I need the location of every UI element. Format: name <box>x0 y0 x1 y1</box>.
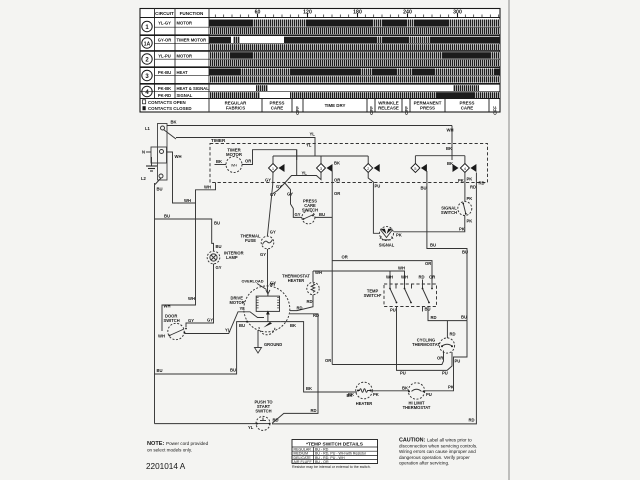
svg-text:RD: RD <box>469 418 475 423</box>
svg-text:PU: PU <box>442 371 448 376</box>
svg-text:MOTOR: MOTOR <box>230 300 245 305</box>
svg-text:BK: BK <box>446 146 452 151</box>
circuit number circles <box>142 21 152 96</box>
svg-text:disconnection when servicing c: disconnection when servicing controls. <box>399 443 477 448</box>
svg-text:RD: RD <box>311 408 317 413</box>
svg-text:WH: WH <box>188 296 195 301</box>
drive motor M2 <box>230 286 290 332</box>
timer motor M1 <box>226 148 243 173</box>
svg-text:RD: RD <box>450 332 456 337</box>
svg-text:BU: BU <box>462 250 468 255</box>
svg-text:YL: YL <box>310 132 316 137</box>
svg-text:OVERLOAD: OVERLOAD <box>242 279 264 284</box>
svg-text:on select models only.: on select models only. <box>147 448 192 453</box>
circuit group divider lines <box>140 35 500 84</box>
svg-text:L1: L1 <box>145 126 151 131</box>
wire WH timer motor feed from terminal N <box>167 152 196 203</box>
svg-text:BK: BK <box>402 386 408 391</box>
svg-text:YL: YL <box>240 306 246 311</box>
svg-text:CONTACTS CLOSED: CONTACTS CLOSED <box>148 106 192 111</box>
push to start switch S5 <box>254 400 273 431</box>
temp switch details table <box>292 440 378 469</box>
wire BK top run to right side <box>167 125 452 127</box>
svg-text:BK: BK <box>348 392 354 397</box>
interior lamp DS1 <box>207 251 243 264</box>
svg-text:WH: WH <box>386 275 393 280</box>
ground <box>146 157 157 171</box>
temp switch S4 (dashed box) <box>364 284 437 307</box>
wire GY lamp to door switch <box>186 264 214 327</box>
svg-text:Label all wires prior to: Label all wires prior to <box>427 438 472 443</box>
svg-text:GY: GY <box>276 184 282 189</box>
wire BU motor bottom feed <box>247 321 280 323</box>
terminal L1 <box>161 126 165 130</box>
svg-text:SWITCH*: SWITCH* <box>364 293 382 298</box>
svg-text:PU: PU <box>390 308 396 313</box>
svg-text:RD: RD <box>419 275 425 280</box>
svg-text:YL: YL <box>225 328 231 333</box>
svg-text:RD: RD <box>307 299 313 304</box>
svg-text:NOTE:: NOTE: <box>147 441 165 447</box>
wire OR bottom run to cycling thermostat <box>332 351 443 365</box>
sub-row separator lines <box>140 27 500 92</box>
wire BU left long run <box>154 183 156 424</box>
svg-text:MOTOR: MOTOR <box>177 20 193 25</box>
svg-text:BU: BU <box>239 323 245 328</box>
svg-text:YL: YL <box>302 170 308 175</box>
svg-text:PK: PK <box>467 219 473 224</box>
wire GY contact 1 to thermal fuse <box>267 173 273 237</box>
wire OR cam 3 arrow drop to center <box>331 171 333 365</box>
legend cycle cells <box>262 99 489 113</box>
door switch S1 <box>158 314 187 340</box>
chart column lines <box>154 9 156 99</box>
timer cam contact 4 (diamond with two arrows) <box>453 164 477 173</box>
svg-text:PU: PU <box>375 184 381 189</box>
svg-text:RD: RD <box>479 181 485 186</box>
motor centrifugal switch <box>259 315 275 335</box>
time scale numbers <box>255 10 462 16</box>
svg-text:RD: RD <box>313 313 319 318</box>
svg-text:RD: RD <box>470 185 476 190</box>
svg-text:BU: BU <box>319 212 325 217</box>
wire BU timer cam 5 drop <box>427 171 467 321</box>
svg-text:BU: BU <box>157 368 163 373</box>
circuit wire-color labels <box>158 20 172 97</box>
svg-text:PK: PK <box>467 177 473 182</box>
svg-text:BU: BU <box>461 315 467 320</box>
svg-text:BK: BK <box>216 159 222 164</box>
svg-text:WH: WH <box>175 154 182 159</box>
timer chart row 1A bars (GY-OR TIMER MOTOR) <box>209 37 500 50</box>
svg-text:2201014 A: 2201014 A <box>146 462 186 471</box>
wire PU cam2 drop to signal <box>368 173 379 234</box>
svg-text:L2: L2 <box>141 176 147 181</box>
svg-text:N: N <box>142 150 145 155</box>
wire YL door switch to drive motor <box>185 312 245 334</box>
function labels <box>177 20 210 97</box>
wire OR temp switch to center drop <box>332 261 432 281</box>
svg-text:OR: OR <box>245 159 251 164</box>
wire WH to temp switch <box>313 271 405 284</box>
svg-text:GY: GY <box>265 178 271 183</box>
svg-text:OR: OR <box>342 255 348 260</box>
svg-text:HEATER: HEATER <box>356 401 373 406</box>
svg-text:PRESS: PRESS <box>420 105 435 110</box>
wire BK motor to heater <box>280 322 357 392</box>
svg-text:PU: PU <box>426 392 432 397</box>
svg-text:WH: WH <box>231 163 238 167</box>
heater E1 <box>348 382 379 406</box>
svg-text:GY: GY <box>270 192 276 197</box>
svg-text:GY: GY <box>207 318 213 323</box>
svg-text:WH: WH <box>204 184 211 189</box>
svg-text:dangerous operation. Verify pr: dangerous operation. Verify proper <box>399 455 470 460</box>
wire YL motor internal <box>245 312 265 318</box>
svg-text:OR: OR <box>425 261 431 266</box>
press care switch S2 <box>302 199 318 224</box>
svg-text:Power cord provided: Power cord provided <box>166 441 209 446</box>
svg-text:PK: PK <box>459 227 465 232</box>
svg-text:THERMOSTAT: THERMOSTAT <box>403 405 431 410</box>
svg-text:OFF: OFF <box>295 106 300 115</box>
svg-text:Wiring errors can cause improp: Wiring errors can cause improper and <box>399 449 476 454</box>
svg-text:BK: BK <box>290 323 296 328</box>
svg-text:GY: GY <box>260 252 266 257</box>
wire PK hi-limit up right <box>424 321 468 391</box>
svg-text:SWITCH: SWITCH <box>302 208 318 213</box>
wire RD motor to push-to-start <box>272 314 318 424</box>
wire PK cam4 to signal switch <box>464 173 466 202</box>
svg-text:GY: GY <box>270 281 276 286</box>
svg-text:BU: BU <box>230 368 236 373</box>
svg-text:Resistor may be internal or ex: Resistor may be internal or external to … <box>292 465 371 469</box>
svg-text:PU: PU <box>400 371 406 376</box>
cycling thermostat S7 <box>412 338 455 361</box>
CAUTION text <box>399 438 477 466</box>
wire WH timer exit down <box>162 183 216 332</box>
wire RD cross run to cycling thermostat <box>428 307 467 321</box>
svg-text:BK: BK <box>447 161 453 166</box>
terminal L2 <box>159 174 163 178</box>
svg-text:CARE: CARE <box>461 105 474 110</box>
svg-text:WH: WH <box>401 275 408 280</box>
L1 switch blade <box>164 130 177 140</box>
svg-text:CONTACTS OPEN: CONTACTS OPEN <box>148 100 186 105</box>
signal switch S3 <box>441 202 472 216</box>
svg-text:OR: OR <box>437 356 443 361</box>
svg-text:GY: GY <box>287 192 293 197</box>
timer cam contact 2 (diamond) <box>364 164 380 173</box>
wire BK cam feed junction <box>451 156 453 160</box>
svg-text:WH: WH <box>164 304 171 309</box>
svg-text:OR: OR <box>325 358 331 363</box>
svg-text:BU: BU <box>164 214 170 219</box>
svg-text:TIME DRY: TIME DRY <box>325 103 346 108</box>
svg-text:1A: 1A <box>144 41 151 47</box>
wire BU press care to center drop <box>315 216 332 218</box>
signal buzzer LS1 <box>379 227 402 248</box>
timer chart row 1 bars (YL-GY MOTOR) <box>209 20 500 35</box>
wire BU temp switch bottom stub <box>422 307 424 312</box>
wire WH thermostat heater top <box>312 271 314 282</box>
svg-text:SWITCH: SWITCH <box>164 318 180 323</box>
svg-text:SIGNAL: SIGNAL <box>379 243 395 248</box>
svg-text:BU: BU <box>216 244 222 249</box>
svg-text:YL: YL <box>248 425 254 430</box>
timer box (dashed) <box>210 144 488 183</box>
wire BK timer motor left <box>215 164 227 166</box>
wire RD thermostat heater bottom <box>290 295 313 311</box>
svg-text:OR: OR <box>334 178 340 183</box>
timer chart row 4 bars (PK-BK / PK-RD) <box>209 85 500 98</box>
wire PK heater to hi-limit <box>371 390 410 392</box>
timer chart row 2 bars (YL-PU MOTOR) <box>209 52 500 66</box>
svg-text:HEAT & SIGNAL: HEAT & SIGNAL <box>177 86 210 91</box>
wire YL from L1 blade to timer contact 1 feed <box>176 138 315 157</box>
svg-text:PK-RD: PK-RD <box>158 93 171 98</box>
wire BU branch to interior lamp <box>155 219 214 252</box>
svg-text:MOTOR: MOTOR <box>226 152 243 157</box>
wire OR timer motor branch <box>296 150 298 176</box>
svg-text:RD: RD <box>297 306 303 311</box>
svg-text:YL-PU: YL-PU <box>158 54 171 59</box>
timer cam contact 1 (diamond) <box>269 164 285 173</box>
svg-text:SWITCH: SWITCH <box>255 409 271 414</box>
wire BK right drop <box>451 126 453 156</box>
svg-text:PU: PU <box>455 359 461 364</box>
timer chart row 3 bars (PK-BU HEAT) <box>209 69 500 83</box>
svg-text:MOTOR: MOTOR <box>177 54 193 59</box>
timer cam contact 5 (diamond) <box>411 164 427 173</box>
wire GY to press care switch <box>285 183 302 217</box>
svg-text:PK: PK <box>396 233 402 238</box>
svg-text:AIR FLUFF: AIR FLUFF <box>294 460 313 464</box>
svg-text:RD: RD <box>273 418 279 423</box>
svg-text:PK: PK <box>458 178 464 183</box>
svg-text:FUNCTION: FUNCTION <box>180 11 204 16</box>
svg-text:THERMOSTAT: THERMOSTAT <box>412 342 440 347</box>
svg-text:HEAT: HEAT <box>177 70 189 75</box>
contacts legend <box>143 100 192 111</box>
svg-text:TIMER: TIMER <box>211 138 226 143</box>
svg-text:CARE: CARE <box>271 105 284 110</box>
thermal fuse F1 <box>240 234 273 249</box>
wire BU branch to drive motor <box>155 322 248 374</box>
svg-text:PK: PK <box>373 392 379 397</box>
svg-text:GY: GY <box>216 265 222 270</box>
svg-text:FUSE: FUSE <box>245 238 256 243</box>
svg-text:WH: WH <box>398 266 405 271</box>
svg-text:RELEASE: RELEASE <box>378 105 399 110</box>
svg-text:BK: BK <box>171 120 177 125</box>
svg-text:BU: BU <box>214 221 220 226</box>
svg-text:operation after servicing.: operation after servicing. <box>399 461 449 466</box>
svg-text:OFF: OFF <box>369 106 374 115</box>
svg-text:RD: RD <box>431 315 437 320</box>
wire PK signal switch to signal <box>394 216 465 232</box>
thermostat heater R1 <box>282 274 319 295</box>
svg-text:CIRCUIT: CIRCUIT <box>155 11 174 16</box>
timer cam contact bus 2 <box>415 155 465 157</box>
temp switch contact stubs <box>386 275 435 304</box>
wire OR timer motor right <box>242 150 297 165</box>
svg-text:YL-GY: YL-GY <box>158 20 171 25</box>
svg-text:LAMP: LAMP <box>226 255 238 260</box>
timer chart outer border <box>140 9 500 113</box>
svg-text:BU: BU <box>430 243 436 248</box>
terminal N <box>160 150 164 154</box>
svg-text:PK-BK: PK-BK <box>158 86 171 91</box>
timer cam contact 3 (diamond) <box>317 164 333 173</box>
chart header row line <box>140 17 500 19</box>
wire YL bottom run to push to start <box>155 423 257 425</box>
svg-text:PK: PK <box>467 196 473 201</box>
svg-text:FABRICS: FABRICS <box>226 105 245 110</box>
timer cam contact bus 1 <box>273 155 368 157</box>
svg-text:GY: GY <box>188 318 194 323</box>
svg-text:WH: WH <box>158 334 165 339</box>
svg-text:WH: WH <box>184 198 191 203</box>
svg-text:GY: GY <box>295 212 301 217</box>
svg-text:GROUND: GROUND <box>264 342 282 347</box>
svg-text:BU: BU <box>157 187 163 192</box>
svg-text:GY: GY <box>270 230 276 235</box>
NOTE text <box>147 441 209 453</box>
svg-text:BU - OR: BU - OR <box>315 460 329 464</box>
svg-text:BU: BU <box>421 186 427 191</box>
wire BU L2 blade to left run <box>155 178 161 185</box>
svg-text:BK: BK <box>334 161 340 166</box>
wire RD cam4 right drop <box>272 173 476 424</box>
svg-text:SWITCH: SWITCH <box>441 210 457 215</box>
svg-text:OFF: OFF <box>493 106 498 115</box>
hi limit thermostat S6 <box>402 383 432 410</box>
wire GY thermal fuse to drive motor <box>267 249 269 293</box>
wire PU temp switch bottom <box>397 307 453 371</box>
svg-text:BK: BK <box>306 386 312 391</box>
svg-text:OR: OR <box>334 191 340 196</box>
svg-text:TIMER MOTOR: TIMER MOTOR <box>177 38 207 43</box>
power cord terminal block <box>151 124 167 181</box>
svg-text:SIGNAL: SIGNAL <box>177 93 193 98</box>
time scale tick marks <box>215 14 498 18</box>
svg-text:PK: PK <box>448 385 454 390</box>
wire YL crossing link <box>273 173 321 194</box>
svg-text:HEATER: HEATER <box>288 278 305 283</box>
svg-text:OFF: OFF <box>404 106 409 115</box>
page edge line right <box>508 0 510 480</box>
ground <box>255 330 283 353</box>
svg-text:GY-OR: GY-OR <box>158 38 172 43</box>
svg-text:PK-BU: PK-BU <box>158 70 171 75</box>
